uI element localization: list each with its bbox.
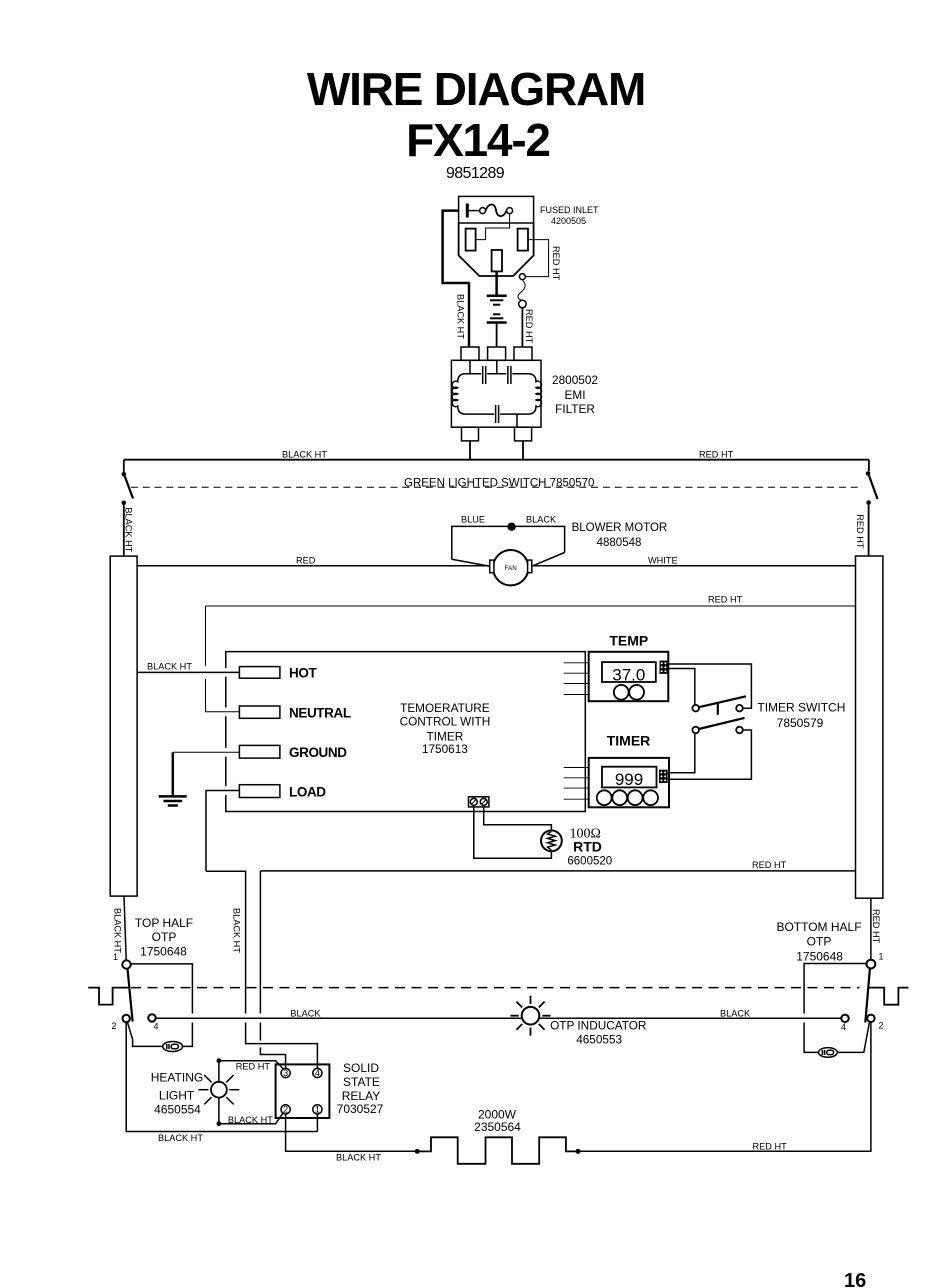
svg-text:HOT: HOT xyxy=(289,666,317,681)
svg-text:NEUTRAL: NEUTRAL xyxy=(289,705,351,720)
svg-text:BLACK HT: BLACK HT xyxy=(147,662,192,672)
wire bottom OTP contact1 to thermal element loop xyxy=(804,964,866,1014)
svg-text:7850579: 7850579 xyxy=(777,716,824,730)
capacitor to chassis (inlet center) xyxy=(487,314,507,347)
svg-text:2: 2 xyxy=(879,1021,884,1031)
node heater left junction xyxy=(415,1149,420,1154)
svg-text:2350564: 2350564 xyxy=(474,1120,521,1134)
svg-text:RED HT: RED HT xyxy=(753,1142,788,1152)
bottom OTP contact 2 xyxy=(867,1015,874,1022)
timer switch lower contacts xyxy=(692,727,699,734)
svg-text:STATE: STATE xyxy=(343,1075,380,1089)
svg-text:7030527: 7030527 xyxy=(337,1102,384,1116)
dashed separator line xyxy=(131,987,860,989)
temp display unit body xyxy=(589,652,669,701)
svg-text:RED HT: RED HT xyxy=(236,1062,271,1072)
terminal tab HOT xyxy=(239,667,280,679)
bottom OTP switch arm xyxy=(865,969,870,1023)
wire ground tab to chassis xyxy=(173,751,240,753)
wire timer pin2 to switch lower right contact xyxy=(668,730,752,779)
wire WHITE fan to right column xyxy=(532,565,856,567)
svg-text:WIRE DIAGRAM: WIRE DIAGRAM xyxy=(307,63,645,115)
relay pin 4 xyxy=(313,1068,322,1077)
EMI filter top tab center xyxy=(488,347,506,360)
svg-text:6600520: 6600520 xyxy=(567,856,612,868)
svg-text:FUSED INLET: FUSED INLET xyxy=(540,205,599,215)
svg-text:BLACK HT: BLACK HT xyxy=(456,294,466,339)
thermal element (top OTP) xyxy=(163,1042,183,1052)
timer display input stubs xyxy=(564,768,589,800)
bottom OTP contact 4 xyxy=(841,1015,848,1022)
wire EMI left tab internal xyxy=(469,360,471,373)
ground symbol (control ground) xyxy=(159,752,187,805)
node heater right junction xyxy=(576,1149,581,1154)
wire neutral loop: neutral tab to top edge to right column xyxy=(206,679,240,712)
svg-text:1750648: 1750648 xyxy=(140,944,187,958)
top OTP contact 4 xyxy=(148,1014,155,1021)
svg-text:LIGHT: LIGHT xyxy=(159,1088,195,1102)
svg-text:4650554: 4650554 xyxy=(154,1103,201,1117)
wire relay pin 1 down to black line xyxy=(316,1114,318,1132)
svg-text:FAN: FAN xyxy=(505,565,518,572)
EMI filter bottom tab left xyxy=(462,427,479,441)
svg-text:RED: RED xyxy=(296,556,316,566)
EMI filter coil box outline with capacitor gaps xyxy=(452,374,541,414)
svg-text:4: 4 xyxy=(154,1022,159,1032)
fuse F1 lead xyxy=(469,210,480,212)
wire EMI bottom left tab to main line xyxy=(469,441,471,460)
temp display readout 37.0 xyxy=(602,662,656,682)
wire top OTP contact1 to thermal element loop xyxy=(131,964,193,1014)
svg-text:RED HT: RED HT xyxy=(708,595,743,605)
fuse F1 right contact xyxy=(507,208,513,214)
svg-text:FX14-2: FX14-2 xyxy=(406,114,550,166)
svg-text:SOLID: SOLID xyxy=(343,1061,379,1075)
svg-text:BLACK HT: BLACK HT xyxy=(228,1115,273,1125)
svg-text:WHITE: WHITE xyxy=(648,556,678,566)
relay pin 1 xyxy=(313,1105,322,1114)
svg-text:TEMP: TEMP xyxy=(609,632,648,648)
blower motor left terminal xyxy=(490,560,494,573)
fused inlet neutral prong (right) xyxy=(518,229,528,251)
wire EMI bottom internal xyxy=(516,414,518,427)
svg-text:LOAD: LOAD xyxy=(289,784,326,799)
wire thermal element to bottom OTP contact 2 xyxy=(837,1022,869,1052)
svg-text:BLACK HT: BLACK HT xyxy=(113,908,123,953)
svg-text:1: 1 xyxy=(879,952,884,962)
blower motor 4880548 lead loop xyxy=(452,526,565,559)
svg-text:RED HT: RED HT xyxy=(752,860,787,870)
svg-text:BLUE: BLUE xyxy=(461,515,485,525)
wire EMI center tab internal xyxy=(496,360,498,373)
svg-text:BLACK HT: BLACK HT xyxy=(282,450,327,460)
wire BLACK HT node to relay pin 2 xyxy=(219,1113,283,1123)
top OTP switch arm xyxy=(128,969,133,1022)
wire LOAD tab to relay pin 4 (BLACK HT) xyxy=(206,791,239,872)
svg-text:BLACK HT: BLACK HT xyxy=(158,1133,203,1143)
wire squiggle red jumper xyxy=(518,280,525,300)
svg-text:OTP: OTP xyxy=(152,930,177,944)
svg-text:4: 4 xyxy=(315,1068,320,1078)
svg-text:4: 4 xyxy=(841,1022,846,1032)
fused inlet ground prong (center) xyxy=(492,250,502,271)
svg-text:TEMOERATURE: TEMOERATURE xyxy=(400,701,490,715)
svg-text:EMI: EMI xyxy=(565,388,586,402)
wire RED HT inlet to EMI right tab xyxy=(521,308,523,347)
thermal element (bottom OTP) xyxy=(819,1048,838,1058)
svg-text:OTP: OTP xyxy=(807,935,832,949)
svg-text:BOTTOM HALF: BOTTOM HALF xyxy=(776,920,861,934)
svg-text:999: 999 xyxy=(615,770,643,789)
svg-text:BLACK: BLACK xyxy=(720,1009,751,1019)
solid state relay 7030527 body xyxy=(276,1064,330,1118)
wire top OTP contact 2 down to relay line xyxy=(126,1022,317,1131)
wire relay pin 2 down to heater (BLACK HT) xyxy=(286,1114,418,1151)
svg-text:RED HT: RED HT xyxy=(855,514,865,549)
svg-text:4650553: 4650553 xyxy=(576,1033,622,1047)
svg-text:37.0: 37.0 xyxy=(612,666,645,685)
wire fuse output to left prong xyxy=(476,214,510,240)
blower motor fan body xyxy=(493,550,528,585)
wire BLACK otp line (left) xyxy=(156,1017,842,1019)
OTP inducator lamp 4650553 xyxy=(511,996,551,1036)
node blower motor junction xyxy=(507,523,515,531)
svg-text:TIMER: TIMER xyxy=(607,733,651,749)
svg-text:OTP INDUCATOR: OTP INDUCATOR xyxy=(550,1018,646,1032)
fuse F1 element squiggle xyxy=(486,205,507,217)
svg-text:BLOWER MOTOR: BLOWER MOTOR xyxy=(572,522,668,534)
ground symbol (inlet ground pin) xyxy=(487,271,507,304)
svg-text:4200505: 4200505 xyxy=(551,216,586,226)
temp display connector block xyxy=(660,661,668,674)
heater element 2000W 2350564 xyxy=(417,1137,578,1164)
svg-text:BLACK HT: BLACK HT xyxy=(124,507,134,552)
wire temp pin2 to switch upper left contact xyxy=(668,669,695,705)
svg-text:GREEN LIGHTED SWITCH 7850570: GREEN LIGHTED SWITCH 7850570 xyxy=(404,477,594,489)
relay pin 3 xyxy=(281,1068,290,1077)
bottom half OTP 1750648 contact 1 xyxy=(867,960,876,969)
wire BLACK HT inlet left to EMI left tab xyxy=(443,211,469,347)
wire temp pin1 to switch upper right contact xyxy=(668,664,752,708)
fused inlet 4200505 top housing xyxy=(459,196,534,223)
wire timer pin1 to switch lower left contact xyxy=(668,733,695,773)
wire right column to bottom OTP contact 1 xyxy=(870,898,872,960)
svg-text:RELAY: RELAY xyxy=(342,1089,380,1103)
wire main supply line (top horizontal) xyxy=(124,459,869,461)
svg-text:1: 1 xyxy=(113,952,118,962)
blower motor right terminal xyxy=(528,560,532,573)
node inlet red connector upper xyxy=(519,274,525,280)
wire heating light top to node xyxy=(218,1061,220,1082)
svg-text:GROUND: GROUND xyxy=(289,745,347,760)
rtd screw terminal block xyxy=(469,797,489,807)
wire RED left column to fan xyxy=(137,565,490,567)
svg-text:RED HT: RED HT xyxy=(871,909,881,944)
RTD 6600520 sensor body xyxy=(541,830,562,851)
EMI filter bottom tab right xyxy=(515,427,532,441)
wire bottom loop to relay pin 3 (RED HT) xyxy=(259,871,261,1014)
dashed link green lighted switch xyxy=(131,486,860,488)
top half OTP 1750648 contact 1 xyxy=(122,960,130,968)
svg-text:2: 2 xyxy=(283,1105,288,1115)
fuse F1 cap terminal xyxy=(466,204,469,218)
svg-text:RED HT: RED HT xyxy=(699,450,734,460)
fused inlet plug body outline xyxy=(459,223,534,276)
node inlet red connector lower xyxy=(519,300,527,308)
svg-text:1750613: 1750613 xyxy=(422,742,468,756)
EMI filter 2800502 body xyxy=(451,360,541,427)
wire BLACK HT switch to left column xyxy=(123,505,125,556)
wire rtd left lead xyxy=(474,807,552,858)
svg-text:BLACK HT: BLACK HT xyxy=(336,1153,381,1163)
temperature control box 1750613 xyxy=(226,652,586,812)
timer switch 7850579 upper contacts xyxy=(692,705,699,712)
green lighted switch right pole xyxy=(868,460,870,472)
rtd terminal screw left xyxy=(470,798,477,805)
svg-text:9851289: 9851289 xyxy=(446,165,505,182)
wire bottom red loop line xyxy=(260,870,855,872)
top OTP contact 2 xyxy=(123,1015,130,1022)
wire rtd right lead xyxy=(484,807,552,831)
wire heating light bottom to node xyxy=(218,1098,220,1124)
timer switch actuator tick xyxy=(717,702,719,715)
wire RED HT switch to right column xyxy=(868,505,870,556)
svg-text:2800502: 2800502 xyxy=(552,373,598,387)
wire EMI bottom right tab to main line xyxy=(522,441,524,460)
svg-text:HEATING: HEATING xyxy=(151,1070,203,1084)
timer switch upper arm xyxy=(699,696,746,707)
svg-text:BLACK: BLACK xyxy=(526,515,557,525)
svg-text:RTD: RTD xyxy=(573,839,602,855)
svg-text:1750648: 1750648 xyxy=(796,950,843,964)
capacitor C3 (EMI bottom) xyxy=(495,405,497,423)
svg-text:TOP HALF: TOP HALF xyxy=(135,916,193,930)
wire blue diagonal to fan terminal xyxy=(452,559,490,566)
rtd terminal screw right xyxy=(480,798,487,805)
timer display buttons xyxy=(597,790,612,805)
temp display input stubs xyxy=(564,663,589,695)
relay pin 2 xyxy=(281,1105,290,1114)
svg-text:2: 2 xyxy=(112,1021,117,1031)
capacitor C2 (EMI top right) xyxy=(507,366,509,384)
svg-text:BLACK: BLACK xyxy=(290,1009,321,1019)
node heating light top junction xyxy=(217,1058,222,1063)
terminal tab GROUND xyxy=(239,745,280,758)
capacitor C1 (EMI top left) xyxy=(482,366,484,384)
terminal tab LOAD xyxy=(239,785,280,798)
wire right prong to inlet connector xyxy=(525,240,548,277)
EMI filter top tab right xyxy=(514,347,532,360)
svg-text:TIMER SWITCH: TIMER SWITCH xyxy=(757,701,845,715)
wire bottom OTP contact 2 down to heater line (RED HT) xyxy=(578,1022,871,1151)
wire left column to top OTP contact 1 xyxy=(124,896,126,960)
green lighted switch left pole xyxy=(123,460,125,472)
svg-text:RED HT: RED HT xyxy=(551,246,561,281)
svg-text:3: 3 xyxy=(283,1068,288,1078)
svg-text:RED HT: RED HT xyxy=(524,309,534,344)
chassis notch right xyxy=(868,988,908,1005)
wire BLACK HT left column to HOT xyxy=(137,671,239,673)
svg-text:FILTER: FILTER xyxy=(555,402,595,416)
timer switch lower arm xyxy=(699,718,745,729)
timer display unit body xyxy=(589,758,669,807)
chassis notch left xyxy=(88,988,129,1005)
fused inlet line prong (left) xyxy=(466,229,476,251)
svg-text:4880548: 4880548 xyxy=(597,537,642,549)
svg-text:1: 1 xyxy=(315,1105,320,1115)
EMI filter top tab left xyxy=(461,347,479,360)
fuse F1 left contact xyxy=(480,208,486,214)
timer display readout 999 xyxy=(602,767,657,788)
svg-text:16: 16 xyxy=(844,1270,866,1288)
node heating light bottom junction xyxy=(217,1121,222,1126)
terminal tab NEUTRAL xyxy=(239,706,280,718)
temp display buttons xyxy=(614,685,629,700)
right heater column (bottom half element) xyxy=(856,556,883,898)
wire thermal element to contact 2 xyxy=(127,1022,162,1047)
wire RED HT node to relay pin 3 xyxy=(219,1061,283,1069)
heating light 4650554 lamp xyxy=(198,1075,239,1104)
RTD element zigzag xyxy=(548,831,556,850)
timer display connector block xyxy=(659,770,668,783)
svg-text:BLACK HT: BLACK HT xyxy=(232,908,242,953)
left heater column (top half element) xyxy=(110,556,137,896)
wire black diagonal to fan terminal xyxy=(532,553,565,567)
svg-text:CONTROL WITH: CONTROL WITH xyxy=(400,715,491,729)
